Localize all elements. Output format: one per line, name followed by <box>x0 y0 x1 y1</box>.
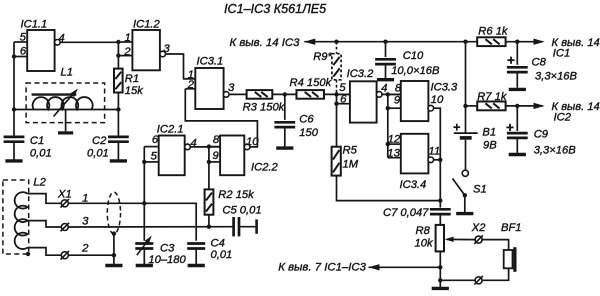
svg-text:C4: C4 <box>211 238 225 250</box>
wire S1 to ground <box>464 195 466 212</box>
wire L2 bottom to X1 pin2 <box>28 248 62 256</box>
wire down to C9 <box>516 106 518 131</box>
svg-text:C10: C10 <box>403 50 424 62</box>
wire X1 pin2 to shield ground <box>68 254 114 256</box>
svg-text:C2: C2 <box>92 135 107 147</box>
resistor R5 1M <box>332 145 359 176</box>
arrow to pin 14 IC1 <box>534 37 600 60</box>
node junction IC2.2 pin9 <box>207 160 211 164</box>
wire C2 to ground <box>117 142 119 160</box>
svg-text:C1: C1 <box>30 135 44 147</box>
wire X2 top to BF1 <box>482 240 508 250</box>
svg-text:R2 15k: R2 15k <box>218 189 255 201</box>
wire IC3.1 output to R3 <box>229 93 247 95</box>
resistor R9* optional dashed <box>313 42 341 95</box>
svg-text:S1: S1 <box>473 184 487 196</box>
wire B1 node to R7 <box>466 105 478 107</box>
svg-text:6: 6 <box>152 134 159 146</box>
svg-text:C6: C6 <box>299 114 314 126</box>
wire IC2.2 inputs down to R2 <box>208 147 210 190</box>
node junction R3/R4/C6 <box>283 92 287 96</box>
ground C6 <box>276 146 293 149</box>
gate IC3.2 pins 5,6 in / 4 out <box>337 68 388 122</box>
wire down to C8 <box>516 42 518 65</box>
svg-text:R3 150k: R3 150k <box>243 101 286 113</box>
node junction C9 <box>515 104 519 108</box>
svg-text:10,0×16В: 10,0×16В <box>391 65 440 77</box>
svg-text:R1: R1 <box>125 73 139 85</box>
battery B1 9V <box>453 124 497 152</box>
capacitor C8 3,3x16V polarized <box>507 56 578 82</box>
capacitor C5 0,01 <box>222 205 261 237</box>
node junction pin12 tie <box>386 142 390 146</box>
svg-text:L1: L1 <box>61 67 73 79</box>
node junction R1/L1/C2 <box>116 107 120 111</box>
node junction C8 <box>515 40 519 44</box>
wire X1 pin1 to C4 corner <box>68 203 196 241</box>
svg-text:R8: R8 <box>416 225 431 237</box>
wire IC3.1 pin2 from IC2.2 output <box>185 89 257 147</box>
resistor R4 150k <box>290 77 333 99</box>
svg-text:10: 10 <box>431 94 444 106</box>
wire IC1.2 inputs down to R1 <box>117 42 119 69</box>
svg-text:3,3×16В: 3,3×16В <box>535 70 578 82</box>
piezo sounder BF1 <box>501 222 522 272</box>
svg-text:4: 4 <box>381 82 387 94</box>
wire IC2.1 inputs down to tank <box>143 162 145 241</box>
node junction R7 feed <box>463 104 467 108</box>
arrow to pin 14 IC3 <box>229 37 315 49</box>
svg-text:IC3.3: IC3.3 <box>431 81 459 93</box>
wire IC3.2 input tie-down <box>336 94 338 146</box>
svg-text:10–180: 10–180 <box>148 254 186 266</box>
wire L1 tank top wire <box>14 109 118 111</box>
wire R4 to IC3.2 pin5 <box>324 93 350 95</box>
svg-text:11: 11 <box>428 145 440 157</box>
gate IC2.2 pins 8,9 in / 10 out <box>209 134 279 175</box>
wire X1 pin3 signal to C5 <box>68 226 233 228</box>
gate IC2.1 pins 6,5 in / 4 out <box>144 124 196 176</box>
svg-text:2: 2 <box>187 79 195 91</box>
gate IC3.4 pins 12,13 in / 11 out <box>387 134 440 192</box>
node junction IC1.2 pin1 <box>116 40 120 44</box>
node terminal stub after C5 <box>255 219 258 233</box>
node junction IC1.2 pin2 <box>116 53 120 57</box>
svg-text:IC1–IC3 К561ЛЕ5: IC1–IC3 К561ЛЕ5 <box>224 2 327 16</box>
node junction IC2.2 pin8 <box>207 144 211 148</box>
svg-text:10: 10 <box>246 136 259 148</box>
svg-text:C7 0,047: C7 0,047 <box>383 207 429 219</box>
svg-text:9: 9 <box>394 94 401 106</box>
capacitor C3 variable 10-180 <box>135 236 186 266</box>
svg-text:8: 8 <box>395 82 402 94</box>
ground R8 <box>432 287 449 290</box>
inductor L1 variable coil with core <box>32 89 93 117</box>
capacitor C6 150 <box>274 114 318 140</box>
svg-text:1: 1 <box>125 32 131 44</box>
wire L1 centre tap <box>65 110 67 131</box>
wire rail down to C10 <box>385 42 387 57</box>
svg-text:2: 2 <box>123 46 131 58</box>
node junction X2 bottom wire <box>438 278 442 282</box>
inductor L2 coil <box>15 192 28 249</box>
svg-text:0,01: 0,01 <box>87 147 109 159</box>
ground S1 <box>456 212 473 215</box>
svg-text:C8: C8 <box>532 56 547 68</box>
wire IC3.4 output 11 to node <box>434 159 441 161</box>
wire R3 to R4 <box>272 93 296 95</box>
node junction IC2.1 pin5 <box>142 160 146 164</box>
node junction pin8 tie <box>386 92 390 96</box>
svg-text:R7 1k: R7 1k <box>477 91 508 103</box>
ground C9 <box>509 153 526 156</box>
svg-text:5: 5 <box>151 150 158 162</box>
svg-text:IC1: IC1 <box>553 47 570 59</box>
wire L2 tap to X1 pin3 <box>28 221 62 227</box>
connector X2 pin bottom <box>474 276 483 285</box>
wire R6 to arrow <box>506 41 543 43</box>
svg-text:3: 3 <box>82 216 89 228</box>
resistor R3 150k <box>243 90 286 113</box>
gate IC1.2 pins 1,2 in / 3 out <box>118 19 170 71</box>
svg-text:13: 13 <box>387 147 400 159</box>
svg-text:C9: C9 <box>534 129 548 141</box>
node junction rail R9 <box>334 40 338 44</box>
node junction pin2/shield <box>112 253 116 257</box>
svg-text:IC2: IC2 <box>554 112 572 124</box>
node junction pin9 tie <box>386 106 390 110</box>
arrow to pin 14 IC2 <box>534 101 600 124</box>
wire R1 bottom to tank <box>117 93 119 138</box>
wire C10 to ground <box>385 64 387 78</box>
wire R7 to arrow <box>506 105 543 107</box>
node junction rail B1 <box>463 40 467 44</box>
svg-text:1M: 1M <box>343 159 359 171</box>
connector X1 pin 2 <box>60 243 89 260</box>
node junction L2 box corner <box>26 252 30 256</box>
inductor L2 shield dashed box <box>3 176 47 254</box>
wire L2 top to X1 pin1 <box>28 194 62 204</box>
wire outputs down to C7 <box>439 160 441 208</box>
svg-text:IC2.2: IC2.2 <box>251 161 279 173</box>
wire C7 to R8 <box>439 214 441 225</box>
node junction at IC1.1 pin6 <box>12 54 16 58</box>
svg-text:3: 3 <box>228 82 235 94</box>
svg-text:IC1.2: IC1.2 <box>133 19 161 31</box>
ground C1 <box>5 159 22 162</box>
svg-text:C3: C3 <box>160 242 175 254</box>
svg-text:IC3.1: IC3.1 <box>197 55 224 67</box>
wire input tie vertical IC3.3/IC3.4 <box>387 94 389 157</box>
node junction rail C10 <box>383 40 387 44</box>
wire C8 to ground <box>516 72 518 88</box>
svg-text:10k: 10k <box>415 237 434 249</box>
ground shield <box>105 264 122 267</box>
svg-text:X2: X2 <box>471 222 486 234</box>
svg-text:L2: L2 <box>33 176 46 188</box>
wire C4 to ground <box>195 249 197 265</box>
svg-text:IC2.1: IC2.1 <box>157 124 184 136</box>
svg-text:R4 150k: R4 150k <box>290 77 333 89</box>
svg-text:К выв. 14 IC3: К выв. 14 IC3 <box>229 37 300 49</box>
node junction IC3.2 pin6 <box>334 102 338 106</box>
wire IC3.2 output to IC3.3 inputs <box>382 93 401 95</box>
wiper arrow R8 from X2 <box>445 237 475 242</box>
ground C8 <box>509 88 526 91</box>
ground C4 <box>188 264 205 267</box>
wire IC1.1 output pin4 to IC1.2 pin1 <box>60 41 118 43</box>
ground C2 <box>110 159 127 162</box>
svg-text:9: 9 <box>212 150 219 162</box>
wire C6 to ground <box>284 127 286 146</box>
node junction pin7 wire <box>438 265 442 269</box>
svg-text:15k: 15k <box>125 85 144 97</box>
arrow to pin 7 IC1-IC3 <box>278 262 440 274</box>
svg-text:IC1.1: IC1.1 <box>21 19 48 31</box>
connector X2 pin top <box>471 222 486 244</box>
wire X2 bottom to BF1 <box>482 268 508 280</box>
gate IC3.3 pins 8,9 in / 10 out <box>388 81 458 121</box>
svg-text:5: 5 <box>20 32 27 44</box>
svg-text:150: 150 <box>299 127 318 139</box>
gate IC3.1 pins 1,2 in / 3 out <box>184 55 236 109</box>
capacitor C4 0,01 <box>187 238 232 261</box>
wire B1 minus to S1 <box>465 140 467 171</box>
resistor R2 15k <box>205 189 256 215</box>
node shield connection <box>112 231 116 235</box>
svg-text:6: 6 <box>340 94 347 106</box>
wire junction down to C6 <box>284 94 286 120</box>
switch S1 <box>453 170 487 197</box>
svg-text:R6 1k: R6 1k <box>478 26 509 38</box>
svg-text:9В: 9В <box>483 139 497 151</box>
resistor R7 1k <box>477 91 508 110</box>
capacitor C1 0,01 <box>4 135 52 159</box>
resistor R6 1k <box>477 26 509 47</box>
capacitor C7 0,047 <box>383 207 451 219</box>
wire rail down to B1 <box>465 42 467 133</box>
wire left feedback vertical to tank <box>13 57 15 138</box>
wire X2 bottom to node <box>440 279 475 281</box>
svg-text:5: 5 <box>339 82 346 94</box>
wire IC3.3 output 10 to node <box>434 108 441 160</box>
op-amp gate IC1.1 (NOR inverter) pins 5,6 in / 4 out <box>14 19 65 72</box>
ground chassis bar at L1 tap <box>58 131 73 134</box>
svg-text:R5: R5 <box>343 145 358 157</box>
wire C9 to ground <box>516 138 518 153</box>
ground C3 <box>136 264 153 267</box>
svg-text:R9*: R9* <box>313 51 332 63</box>
svg-text:X1: X1 <box>57 189 72 201</box>
wire IC2.1 out to IC2.2 in <box>190 146 220 148</box>
svg-text:12: 12 <box>388 134 401 146</box>
wire C3 to ground <box>143 249 145 265</box>
wire R2 bottom <box>208 215 210 227</box>
shielded pair dashed oval <box>107 192 120 234</box>
node junction outputs 10/11 <box>438 158 442 162</box>
wire top supply rail to pin14 <box>304 41 477 43</box>
svg-text:C5 0,01: C5 0,01 <box>222 205 261 217</box>
ground C10 <box>377 78 394 81</box>
svg-text:6: 6 <box>20 45 27 57</box>
capacitor C9 3,3x16V polarized <box>506 124 576 157</box>
wire IC1.2 output to IC3.1 pin1 <box>166 54 196 79</box>
wire C1 to ground <box>13 142 15 160</box>
svg-text:К выв. 7 IC1–IC3: К выв. 7 IC1–IC3 <box>278 262 366 274</box>
svg-text:BF1: BF1 <box>501 222 522 234</box>
wire R8 bottom to ground <box>439 251 441 287</box>
svg-text:B1: B1 <box>482 126 496 138</box>
resistor R8 10k potentiometer <box>415 225 445 252</box>
svg-text:0,01: 0,01 <box>211 249 233 261</box>
node junction L1 left <box>12 107 16 111</box>
resistor R1 15k <box>114 69 144 97</box>
node junction input tank <box>142 201 146 205</box>
wire shield to ground <box>113 234 115 264</box>
capacitor C2 0,01 <box>87 135 129 159</box>
node junction R5/C7 <box>438 198 442 202</box>
node junction R2/C5 wire <box>207 225 211 229</box>
inductor L1 shield dashed box <box>26 67 105 123</box>
wire R5 bottom to C7 node <box>337 176 441 201</box>
svg-text:IC3.4: IC3.4 <box>400 179 427 191</box>
svg-text:0,01: 0,01 <box>30 147 52 159</box>
connector X1 pin 1 <box>57 189 88 208</box>
svg-text:IC3.2: IC3.2 <box>347 68 375 80</box>
part list title IC1-IC3 K561LE5 <box>224 2 327 16</box>
connector X1 pin 3 <box>60 216 89 232</box>
svg-text:3,3×16В: 3,3×16В <box>534 145 577 157</box>
node junction IC3.2 pin5 <box>334 92 338 96</box>
capacitor C10 10,0x16V <box>375 50 440 77</box>
wire C5 to terminal <box>239 226 256 228</box>
svg-text:2: 2 <box>81 243 89 255</box>
svg-text:8: 8 <box>213 134 220 146</box>
